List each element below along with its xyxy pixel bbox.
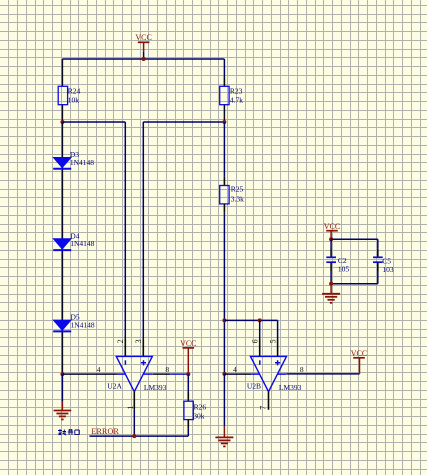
wire C2 top lead xyxy=(330,239,332,257)
diode D4 1N4148 xyxy=(53,231,94,250)
pin number 1 U2A xyxy=(126,406,135,410)
wire left rail diode chain xyxy=(61,122,63,374)
wire U2B output pin7 xyxy=(268,392,270,410)
pin number 5 U2B xyxy=(268,339,277,343)
wire right rail upper xyxy=(223,59,225,86)
svg-text:U2A: U2A xyxy=(107,382,122,391)
wire node to U2A pin3 xyxy=(143,121,224,123)
node U2B input top junction xyxy=(222,318,226,322)
wire right rail to R25 xyxy=(223,122,225,186)
svg-text:6: 6 xyxy=(250,339,259,343)
ground right power ground xyxy=(215,427,233,447)
node U2A output ERROR junction xyxy=(132,434,136,438)
svg-text:1N4148: 1N4148 xyxy=(70,239,94,248)
svg-text:R24: R24 xyxy=(68,86,81,95)
resistor R25 xyxy=(220,185,244,204)
wire capacitor bottom xyxy=(331,283,378,285)
pin number 2 U2A xyxy=(116,339,125,343)
wire top bus from R24 to R23 xyxy=(62,58,224,60)
svg-text:VCC: VCC xyxy=(324,222,340,231)
wire U2B pin4 line xyxy=(224,373,251,375)
resistor R24 xyxy=(58,86,80,104)
power VCC top xyxy=(135,33,151,59)
svg-text:LM393: LM393 xyxy=(144,383,167,392)
node U2B pin4 junction xyxy=(222,372,226,376)
svg-text:5: 5 xyxy=(268,339,277,343)
capacitor C5 xyxy=(373,257,394,274)
op-amp U2B LM393 xyxy=(247,356,302,391)
svg-text:30k: 30k xyxy=(193,412,205,421)
resistor R23 xyxy=(220,86,244,104)
wire R26 bottom lead xyxy=(187,420,189,437)
wire U2A pin2 vertical xyxy=(124,122,126,356)
svg-text:R25: R25 xyxy=(231,185,244,194)
svg-text:LM393: LM393 xyxy=(279,383,302,392)
svg-text:7: 7 xyxy=(259,406,268,410)
wire U2B input horizontal xyxy=(224,319,277,321)
node R24 bottom junction xyxy=(60,120,64,124)
wire U2A output pin1 xyxy=(133,392,135,436)
node VCC pin8 junction xyxy=(186,372,190,376)
pin number 8 U2A xyxy=(165,365,169,374)
pin number 6 U2B xyxy=(250,339,259,343)
wire R23 bottom lead xyxy=(223,105,225,122)
svg-text:10k: 10k xyxy=(68,96,80,105)
svg-text:U2B: U2B xyxy=(247,382,261,391)
svg-text:8: 8 xyxy=(165,365,169,374)
wire U2B pin8 to VCC xyxy=(287,358,360,374)
power VCC right of U2B xyxy=(351,349,367,358)
svg-text:4.7k: 4.7k xyxy=(230,96,243,105)
diode D3 1N4148 xyxy=(53,150,94,169)
svg-text:R26: R26 xyxy=(194,402,207,411)
net label ERROR xyxy=(91,427,119,436)
wire left rail upper xyxy=(61,59,63,86)
pin number 3 U2A xyxy=(134,339,143,343)
wire left ground stem xyxy=(61,374,63,402)
pin number 4 U2B xyxy=(233,365,237,374)
power VCC above R26 xyxy=(180,339,196,374)
svg-text:105: 105 xyxy=(338,265,350,274)
svg-text:R23: R23 xyxy=(230,86,243,95)
ground left power ground xyxy=(54,402,72,420)
node R23 bottom junction xyxy=(222,120,226,124)
svg-text:1: 1 xyxy=(126,406,135,410)
wire C5 top lead xyxy=(377,239,379,257)
wire VCC node down to R26 xyxy=(187,374,189,401)
pin number 7 U2B xyxy=(259,406,268,410)
power VCC capacitor section xyxy=(324,222,340,240)
wire node to U2A pin2 xyxy=(62,121,125,123)
wire U2A pin3 vertical xyxy=(142,122,144,356)
node U2B pin6 junction xyxy=(258,318,262,322)
svg-text:1N4148: 1N4148 xyxy=(70,158,94,167)
svg-text:4: 4 xyxy=(233,365,237,374)
wire U2B pin5 vertical xyxy=(277,320,279,356)
node U2A pin4 junction xyxy=(60,372,64,376)
wire right rail to U2B input node xyxy=(223,320,225,374)
svg-text:ERROR: ERROR xyxy=(91,427,119,436)
node capacitor VCC junction xyxy=(329,237,333,241)
wire R24 bottom lead xyxy=(61,105,63,122)
wire U2B pin6 vertical xyxy=(259,320,261,356)
wire right rail to ground xyxy=(223,374,225,427)
svg-text:VCC: VCC xyxy=(180,339,196,348)
wire capacitor top xyxy=(331,238,378,240)
text note jie bing kou xyxy=(58,429,79,435)
svg-text:2: 2 xyxy=(116,339,125,343)
wire U2A pin8 to VCC node xyxy=(152,373,188,375)
node junction top VCC/bus xyxy=(142,57,146,61)
pin number 4 U2A xyxy=(97,365,101,374)
op-amp U2A LM393 xyxy=(107,356,166,391)
svg-text:VCC: VCC xyxy=(351,349,367,358)
capacitor C2 xyxy=(326,256,349,273)
wire right rail below R25 xyxy=(223,204,225,321)
svg-text:4: 4 xyxy=(97,365,101,374)
svg-text:VCC: VCC xyxy=(135,33,151,42)
svg-text:3: 3 xyxy=(134,339,143,343)
svg-text:8: 8 xyxy=(300,365,304,374)
svg-text:1N4148: 1N4148 xyxy=(71,321,95,330)
node capacitor ground junction xyxy=(329,282,333,286)
resistor R26 xyxy=(184,401,206,420)
svg-text:3.3k: 3.3k xyxy=(231,195,244,204)
wire ERROR net xyxy=(89,435,188,437)
diode D5 1N4148 xyxy=(53,313,95,332)
svg-text:103: 103 xyxy=(382,265,394,274)
ground capacitor power ground xyxy=(322,284,340,303)
wire C5 bottom lead xyxy=(377,263,379,284)
pin number 8 U2B xyxy=(300,365,304,374)
wire C2 bottom lead xyxy=(330,263,332,284)
wire U2A pin4 line xyxy=(62,373,117,375)
